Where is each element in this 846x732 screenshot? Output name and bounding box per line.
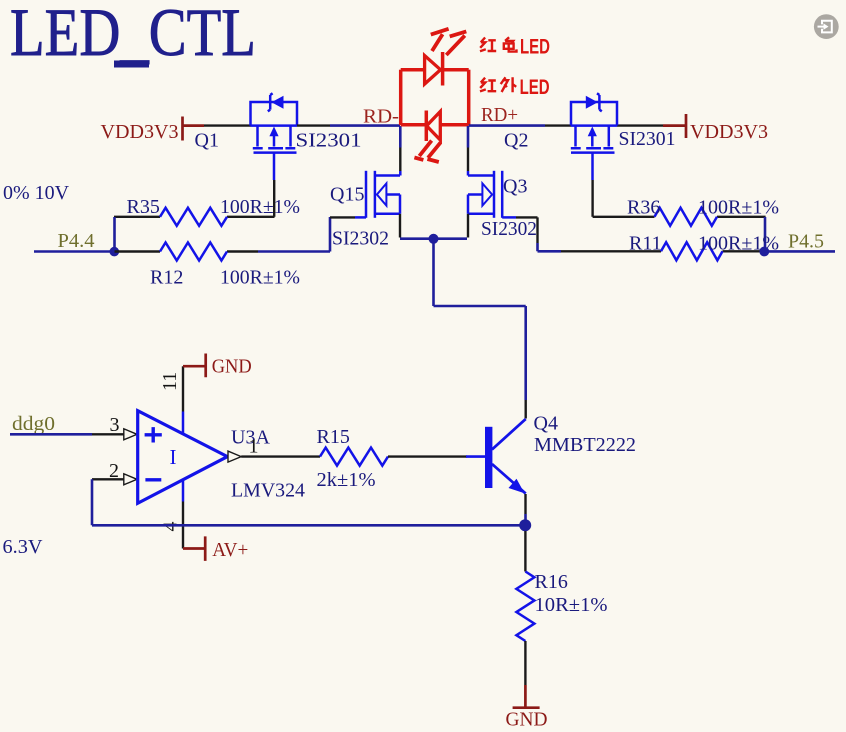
pin arrow 3 — [124, 429, 137, 440]
wire R35 to P4.4 node — [113, 217, 116, 251]
svg-text:100R±1%: 100R±1% — [698, 197, 779, 219]
transistor Q15 SI2302 N-MOSFET — [355, 171, 400, 218]
svg-text:Q15: Q15 — [330, 184, 364, 206]
svg-text:R16: R16 — [535, 571, 568, 593]
transistor Q3 SI2302 N-MOSFET — [468, 171, 516, 218]
transistor Q1 SI2301 P-MOSFET — [251, 93, 298, 180]
power symbol AV+ — [183, 536, 248, 561]
pin arrow output — [228, 451, 241, 462]
wire Q2 drain to VDD3V3 right — [617, 124, 663, 126]
junction dot P4.5 — [759, 247, 769, 257]
power symbol GND bottom — [506, 685, 548, 731]
wire R36 down to P4.5 node — [764, 217, 767, 251]
svg-text:10R±1%: 10R±1% — [535, 594, 608, 616]
svg-text:LED: LED — [520, 34, 550, 58]
pin 11 wire up to GND — [182, 412, 185, 435]
svg-text:R15: R15 — [317, 426, 350, 448]
pin Q4 emitter down — [524, 494, 526, 514]
title underscore emphasis — [114, 61, 149, 68]
pin arrow 2 — [124, 474, 137, 485]
junction dot emitter — [519, 519, 531, 531]
svg-text:2k±1%: 2k±1% — [317, 469, 376, 491]
svg-text:SI2301: SI2301 — [619, 128, 676, 150]
svg-text:VDD3V3: VDD3V3 — [690, 121, 768, 143]
svg-text:R36: R36 — [627, 197, 660, 219]
wire pin2 — [92, 478, 124, 480]
svg-text:0% 10V: 0% 10V — [3, 182, 70, 204]
LED right leg — [467, 70, 471, 125]
svg-text:Q2: Q2 — [504, 130, 528, 152]
svg-text:LED_CTL: LED_CTL — [10, 0, 256, 70]
svg-text:SI2302: SI2302 — [481, 218, 537, 240]
LED left leg — [399, 70, 403, 125]
wire VDD3V3 to Q1 source — [204, 124, 251, 126]
svg-text:P4.4: P4.4 — [58, 230, 95, 252]
svg-text:SI2301: SI2301 — [296, 130, 362, 152]
wire P4.5 stub — [764, 250, 835, 253]
svg-text:LMV324: LMV324 — [231, 480, 305, 502]
label 红色LED — [480, 37, 517, 51]
wire emitter node to R16 — [524, 531, 526, 572]
svg-text:3: 3 — [110, 414, 120, 436]
pin Q3 source down — [467, 214, 469, 238]
wire R12 to Q15 gate — [258, 217, 330, 252]
wire ddg0 to op-amp pin3 — [10, 433, 92, 436]
resistor R35 — [114, 208, 275, 226]
svg-text:Q4: Q4 — [534, 413, 558, 435]
svg-text:Q3: Q3 — [503, 176, 527, 198]
svg-text:RD+: RD+ — [481, 104, 518, 126]
wire Q15/Q3 sources join — [400, 237, 467, 240]
resistor R15 — [320, 448, 467, 466]
red LED pair — [401, 29, 469, 162]
LED bottom emission arrows — [414, 141, 440, 162]
wire Q1 drain to RD- node — [297, 124, 330, 126]
pin 4 wire down to AV+ — [182, 480, 185, 502]
power symbol VDD3V3 left — [101, 117, 205, 144]
svg-text:100R±1%: 100R±1% — [220, 267, 300, 289]
power symbol VDD3V3 right — [663, 114, 768, 143]
svg-text:Q1: Q1 — [195, 130, 219, 152]
wire RD+ node to Q2 — [469, 124, 545, 127]
svg-text:SI2302: SI2302 — [332, 228, 389, 250]
svg-text:ddg0: ddg0 — [12, 413, 55, 435]
label 红外LED — [480, 77, 516, 92]
wire op-amp output to R15 — [241, 455, 320, 457]
wire Q3 gate to R11 — [516, 217, 538, 243]
svg-text:1: 1 — [249, 436, 259, 458]
wire Q2 gate down to R36 — [591, 180, 593, 217]
svg-text:R35: R35 — [127, 196, 160, 218]
transistor Q4 MMBT2222 NPN — [466, 419, 526, 494]
svg-text:VDD3V3: VDD3V3 — [101, 121, 179, 143]
svg-text:R11: R11 — [629, 233, 662, 255]
wire Q3 drain from RD+ node — [467, 126, 470, 148]
svg-text:GND: GND — [506, 709, 548, 731]
resistor R11 — [561, 242, 760, 260]
power symbol GND top — [183, 354, 252, 378]
resistor R16 (vertical) — [516, 572, 534, 642]
svg-text:6.3V: 6.3V — [3, 536, 44, 558]
svg-text:2: 2 — [109, 460, 119, 482]
svg-text:100R±1%: 100R±1% — [220, 196, 300, 218]
pin Q15 drain up to LED — [399, 148, 401, 172]
red LED D? top (points right) — [401, 68, 425, 72]
junction dot sources — [429, 234, 439, 244]
infrared LED bottom (points left) — [401, 123, 427, 127]
svg-text:I: I — [170, 445, 177, 469]
op-amp U3A LMV324 — [138, 411, 228, 504]
wire P4.4 stub — [34, 250, 114, 253]
resistor R36 — [593, 208, 766, 226]
wire R16 to GND — [524, 641, 526, 685]
wire junction down to Q4 collector — [434, 239, 526, 400]
transistor Q2 SI2301 P-MOSFET (mirrored) — [571, 93, 617, 180]
svg-text:P4.5: P4.5 — [788, 231, 824, 253]
LED top emission arrows — [431, 29, 467, 55]
svg-text:MMBT2222: MMBT2222 — [534, 434, 636, 456]
svg-text:R12: R12 — [150, 267, 183, 289]
feedback wire from emitter to pin2 — [92, 479, 525, 525]
svg-text:LED: LED — [520, 74, 550, 98]
pin Q15 source down — [399, 214, 401, 238]
junction dot P4.4 — [110, 247, 120, 257]
svg-text:11: 11 — [159, 372, 181, 391]
svg-text:RD-: RD- — [363, 106, 399, 128]
resistor R12 — [115, 243, 259, 261]
svg-text:GND: GND — [212, 356, 252, 378]
svg-text:AV+: AV+ — [212, 539, 248, 561]
wire gate Q1 down to R35 — [273, 180, 275, 217]
ui icon top-right — [814, 14, 839, 39]
